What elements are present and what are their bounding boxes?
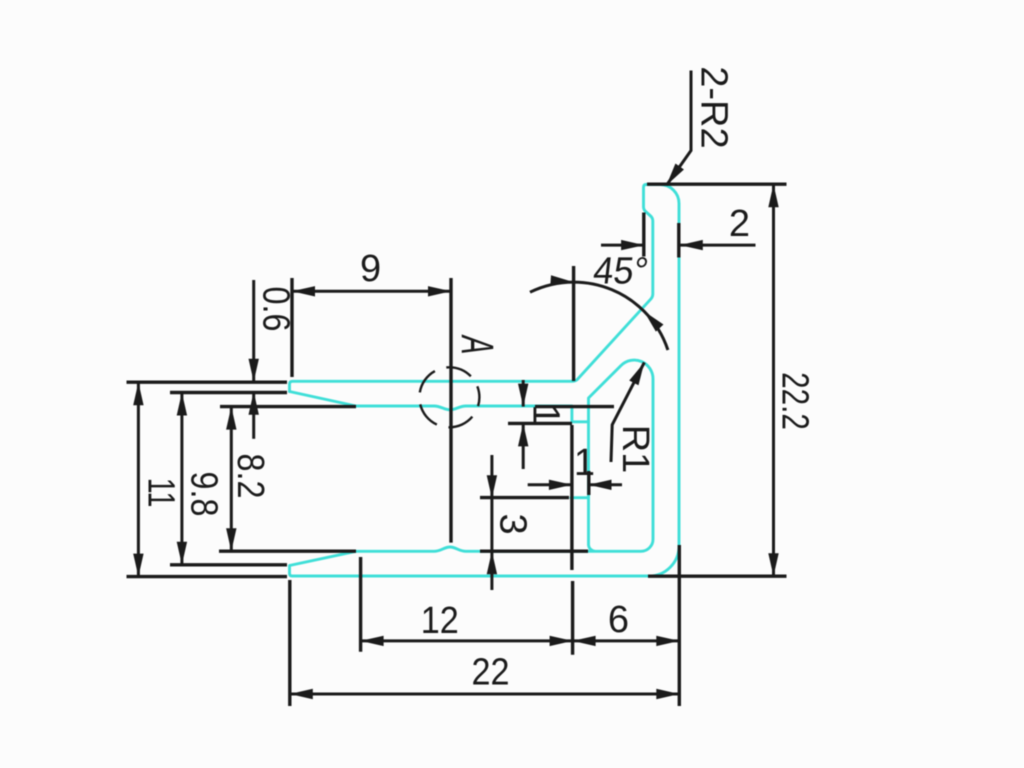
arrows dim 8.2 (226, 407, 236, 430)
dim 6 line (573, 639, 680, 642)
arrows dim 22.2 (768, 184, 778, 207)
profile outline: top arm underside, taper, serration bump, notch A and B (290, 392, 589, 422)
ext 45deg vertical (572, 266, 575, 381)
dim 8.2 line (230, 407, 233, 552)
svg-text:12: 12 (421, 598, 459, 641)
svg-text:1: 1 (574, 442, 595, 484)
dim 9.8 line (180, 393, 183, 565)
dim 1 step line (522, 380, 525, 407)
dim 1 width line (528, 483, 572, 486)
detail circle A (419, 367, 479, 427)
ext 12 left (359, 557, 362, 652)
ext 3 bottom right segment (480, 550, 588, 553)
arrows dim 1 width (549, 480, 572, 490)
dimension lines with arrowheads (138, 71, 773, 695)
svg-text:R1: R1 (614, 425, 656, 474)
arrowheads (133, 163, 779, 699)
arrows dim 1 step (518, 384, 528, 407)
ext 22.2 bottom (648, 575, 787, 578)
svg-text:2-R2: 2-R2 (692, 66, 734, 148)
svg-text:11: 11 (140, 478, 182, 508)
ext 2 right (677, 223, 680, 258)
dimension extension lines (127, 184, 787, 706)
svg-text:45°: 45° (591, 249, 651, 292)
dim 22 line (290, 693, 680, 696)
dim 2 line (601, 244, 644, 247)
arrows dim 3 (487, 475, 497, 498)
arrows dim 6 (573, 636, 596, 646)
leader 2-R2 (667, 71, 692, 186)
ext 9 left (290, 278, 293, 377)
ext 1 step bottom (508, 422, 572, 425)
svg-text:22: 22 (471, 650, 509, 693)
svg-text:3: 3 (492, 513, 534, 534)
svg-text:9.8: 9.8 (183, 472, 225, 517)
profile outline: web bottom face D (571, 496, 589, 499)
ext 1 notch left vertical (570, 425, 573, 570)
svg-text:6: 6 (608, 599, 629, 641)
dim 22.2 line (772, 184, 775, 576)
ext 11 top (127, 381, 288, 384)
svg-text:22.2: 22.2 (774, 372, 816, 430)
ext 9.8 top (170, 391, 287, 394)
dim 9 line (292, 290, 451, 293)
arrows dim 2 (621, 240, 644, 250)
ext 9.8 bottom (170, 563, 287, 566)
arrows dim 9.8 (177, 393, 187, 416)
arrow leader 2-R2 (662, 163, 684, 188)
svg-text:0.6: 0.6 (255, 287, 297, 332)
ext 1 notch right vertical (587, 471, 590, 495)
profile outline: outer silhouette, bottom arm, cavity floor, right wall, dome, strut lower edge (290, 185, 680, 577)
ext 3 top (480, 496, 569, 499)
svg-text:8.2: 8.2 (229, 454, 271, 499)
ext 11 bottom (127, 575, 288, 578)
svg-text:A: A (452, 334, 502, 354)
ext 6-22 right (678, 545, 681, 706)
arrows dim 0.6 (249, 359, 259, 382)
dim 12 line (361, 639, 573, 642)
svg-text:9: 9 (360, 248, 381, 290)
arrow leader R1 (629, 360, 649, 385)
dim 0.6 line (252, 280, 255, 382)
arrows 45deg arc (550, 275, 574, 287)
arrows dim 9 (292, 286, 315, 296)
ext 22.2 top (647, 182, 787, 185)
arrows dim 12 (361, 636, 384, 646)
dimension texts (140, 66, 817, 693)
ext 22 left (288, 580, 291, 706)
ext 8.2 bottom left segment (219, 550, 356, 553)
arrows dim 22 (290, 689, 313, 699)
svg-text:2: 2 (729, 203, 750, 245)
ext 1 step right (535, 405, 614, 408)
ext 9 right centerline (449, 278, 452, 543)
ext 8.2 top (220, 405, 356, 408)
dim 45deg arc (530, 282, 574, 292)
ext 2 left (642, 213, 645, 257)
dim 3 line (490, 455, 493, 590)
ext 12-6 shared (571, 581, 574, 655)
dim 11 line (137, 382, 140, 576)
leader R1 (611, 362, 644, 462)
arrows dim 11 (133, 382, 143, 405)
profile outline: top arm top edge, strut upper edge, wall inner edge, flange step, top-left corner (290, 185, 653, 392)
svg-text:1: 1 (525, 404, 567, 425)
